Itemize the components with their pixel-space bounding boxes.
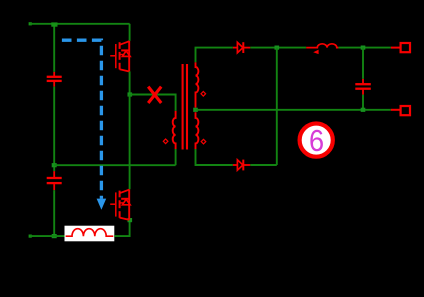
transformer T1 core: [183, 64, 187, 150]
capacitor C1: [47, 72, 62, 87]
capacitor C3: [355, 79, 371, 95]
node junction Q2 source: [128, 218, 133, 222]
polarity dot secondary bottom: [201, 139, 206, 144]
inductor L2 white box: [65, 226, 115, 242]
node junction cap bottom: [361, 108, 366, 112]
terminal output plus: [391, 43, 410, 52]
wire midrail: [54, 164, 175, 166]
wire node A to Q2 drain: [129, 95, 131, 190]
wire D2 to rectifier node: [250, 164, 276, 166]
node junction cap top: [361, 46, 366, 50]
wire Q1 drain: [129, 24, 131, 41]
inductor L1: [306, 44, 338, 54]
wire Q1 source to node A: [129, 71, 131, 94]
wire end dot top rail: [29, 22, 32, 25]
wire center tap to output minus: [196, 109, 391, 111]
node A junction: [128, 92, 133, 96]
terminal output minus: [391, 106, 410, 115]
wire bottom rail right: [114, 220, 129, 236]
diode D2: [233, 160, 250, 171]
wire secondary bottom to D2: [196, 149, 233, 165]
wire primary bottom to midrail: [175, 149, 177, 165]
transformer T1 secondary top winding: [196, 62, 199, 107]
wire left rail upper: [53, 24, 55, 72]
diode D1: [233, 42, 250, 53]
polarity dot primary: [163, 139, 168, 144]
node junction rectifier output: [275, 46, 280, 50]
polarity dot secondary top: [201, 92, 206, 97]
wire bottom rail left: [30, 235, 65, 237]
node junction mid-left: [52, 163, 57, 167]
node junction center tap: [193, 108, 198, 112]
svg-text:6: 6: [309, 124, 324, 158]
capacitor C2: [47, 171, 62, 190]
wire D1 to rectifier node: [250, 47, 306, 49]
wire rectifier node down to D2: [276, 48, 278, 165]
wire top rail: [30, 23, 130, 25]
node junction top-left: [51, 22, 57, 26]
transistor Q2: [110, 189, 130, 220]
X fault mark: [148, 87, 161, 103]
wire secondary top to D1: [196, 48, 233, 63]
node junction bottom-left: [52, 234, 57, 238]
wire left rail lower: [53, 190, 55, 236]
wire node A to primary top: [130, 95, 176, 111]
current path arrow: [62, 40, 106, 210]
callout badge 6: [300, 124, 333, 159]
transistor Q1: [110, 41, 130, 72]
wire end dot bottom rail: [29, 235, 32, 238]
wire left rail middle: [53, 87, 55, 172]
transformer T1 secondary bottom winding: [196, 112, 199, 149]
wire cap branch upper: [362, 48, 364, 79]
transformer T1 primary winding: [173, 111, 176, 149]
wire L1 to output plus: [338, 47, 391, 49]
wire cap branch lower: [362, 95, 364, 110]
